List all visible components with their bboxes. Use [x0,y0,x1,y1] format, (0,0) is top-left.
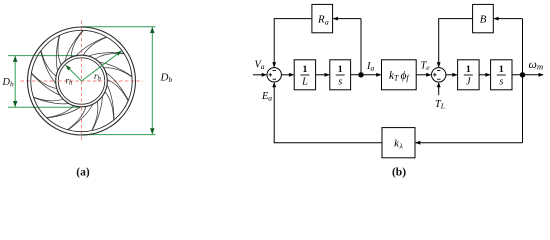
fan blade 8 [46,106,73,118]
svg-text:(a): (a) [76,167,90,179]
svg-text:Db: Db [160,72,173,85]
dimension D_b arrow line [151,27,153,134]
fan hub outer circle [56,55,108,107]
block 1/s (mechanical) [491,60,512,90]
wire Ia node up to Ra level [360,19,362,75]
dimension D_b extension line bottom [82,134,156,136]
svg-text:TL: TL [435,99,445,111]
svg-text:s: s [499,77,503,88]
centerline vertical (red dashed) [81,21,83,143]
svg-text:J: J [466,77,471,88]
centerline horizontal (red dashed) [21,80,144,82]
wire S1 to 1/L [281,74,293,76]
hub centerline vertical (red dashed, over hub) [81,58,83,105]
wire 1/J to 1/s [479,74,490,76]
fan blade 12 [58,35,61,65]
fan blade 1 [83,37,107,55]
svg-text:s: s [338,77,342,88]
wire Ra feedback top right to Ra block [333,18,361,20]
svg-text:Va: Va [255,60,265,72]
fan blade 9 [33,97,63,101]
wire kT block to S2 [416,74,430,76]
dimension D_h extension line top [8,55,83,57]
fan blade 7 [67,107,86,130]
block kT phi_f [382,60,417,90]
svg-text:Te: Te [421,61,431,73]
fan blade 13 [71,30,83,57]
svg-text:ωm: ωm [529,57,544,72]
wire Ra block to S1 top [274,19,312,67]
fan blade 2 [95,53,124,58]
node omega_m [520,72,525,77]
wire 1/s to omega output with node [512,74,543,76]
summing junction S1 [267,68,281,82]
svg-text:B: B [480,14,487,26]
block 1/J [458,60,480,90]
dimension D_h arrow line [14,56,16,107]
block k_lambda [382,128,415,158]
block B [473,4,494,32]
wire B block to S2 top [439,19,473,67]
fan outer rim inner circle [31,30,132,131]
block 1/s (electrical) [330,60,351,90]
fan blade 3 [104,68,132,77]
wire omega node up to B level [522,19,524,75]
fan blade 11 [41,51,56,77]
fan blade 4 [108,80,129,101]
node Ia [358,72,363,77]
radius r_h arrow [66,65,82,81]
wire Va input [253,74,266,76]
wire omega node down to k_lambda level [522,75,524,143]
dimension D_h extension line bottom [8,106,79,108]
svg-text:Ea: Ea [261,91,272,103]
svg-text:(b): (b) [392,167,406,179]
svg-text:1: 1 [338,64,343,75]
wire 1/L to 1/s [316,74,329,76]
wire 1/s to kT block with node Ia [351,74,381,76]
fan blade 6 [92,102,98,131]
svg-text:Dh: Dh [2,77,14,89]
block Ra [312,4,333,32]
svg-text:1: 1 [499,64,504,75]
svg-text:1: 1 [466,64,471,75]
wire B feedback top right to B block [494,18,522,20]
fan blade 10 [32,73,57,89]
input TL stub [438,83,440,95]
svg-text:Ia: Ia [366,61,374,73]
fan blade 5 [105,92,114,120]
wire k_lambda to S1 bottom (Ea) [274,83,382,143]
dimension D_b extension line top [82,26,156,28]
svg-text:L: L [301,77,308,88]
svg-text:1: 1 [302,64,307,75]
block 1/L [294,60,315,90]
summing junction S2 [432,68,446,82]
fan hub inner circle [58,58,104,104]
wire bottom feedback right to k_lambda block [416,142,523,144]
fan outer rim outer circle [28,27,136,135]
hub centerline horizontal (red dashed, over hub) [58,80,105,82]
radius r_b arrow [82,51,122,81]
wire S2 to 1/J [446,74,457,76]
